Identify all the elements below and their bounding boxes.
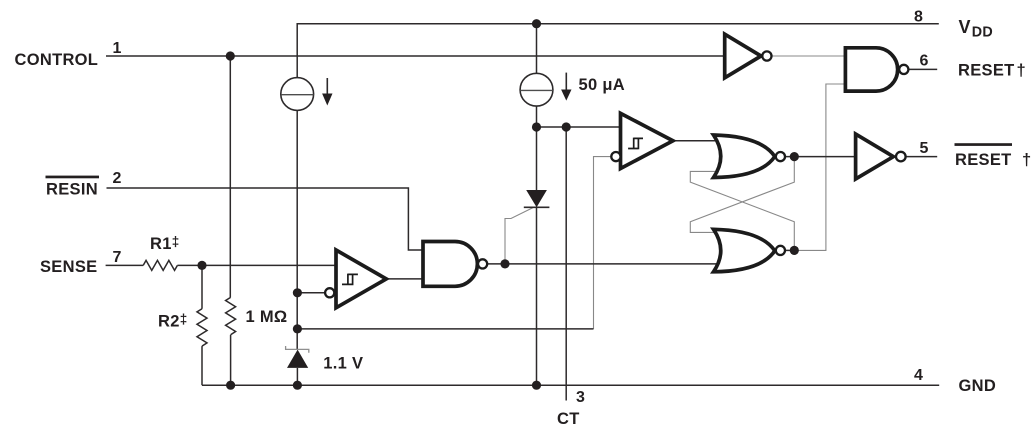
svg-text:CT: CT	[557, 410, 580, 428]
svg-text:GND: GND	[959, 377, 997, 395]
svg-text:†: †	[1017, 62, 1026, 80]
svg-text:RESIN: RESIN	[46, 180, 98, 198]
svg-text:1: 1	[113, 40, 122, 57]
svg-text:2: 2	[113, 170, 122, 187]
svg-text:V: V	[959, 17, 971, 37]
svg-text:CONTROL: CONTROL	[15, 51, 99, 69]
svg-text:50 μA: 50 μA	[579, 76, 625, 94]
svg-text:5: 5	[920, 140, 929, 157]
svg-text:†: †	[1022, 151, 1031, 169]
svg-text:R2‡: R2‡	[158, 311, 188, 330]
svg-text:RESET: RESET	[955, 151, 1012, 169]
svg-text:1 MΩ: 1 MΩ	[246, 308, 288, 326]
svg-text:RESET: RESET	[958, 62, 1015, 80]
svg-text:7: 7	[113, 249, 122, 266]
svg-text:3: 3	[576, 389, 585, 406]
svg-text:1.1 V: 1.1 V	[323, 354, 363, 372]
svg-text:8: 8	[914, 9, 923, 26]
svg-text:4: 4	[914, 367, 923, 384]
svg-text:DD: DD	[972, 24, 993, 40]
svg-text:R1‡: R1‡	[150, 234, 180, 253]
svg-text:SENSE: SENSE	[40, 258, 97, 276]
svg-text:6: 6	[920, 53, 929, 70]
